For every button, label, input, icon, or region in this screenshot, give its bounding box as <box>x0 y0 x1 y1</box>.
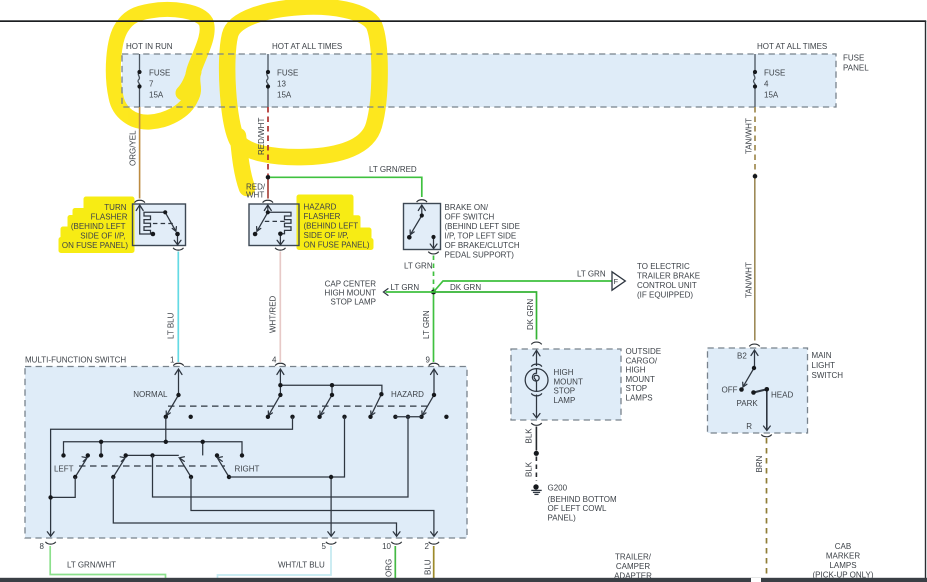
highlighter circle around HOT AT ALL TIMES <box>227 7 379 188</box>
wire BLK solid <box>535 427 537 451</box>
center contact segment <box>126 454 179 456</box>
svg-text:B2: B2 <box>737 352 747 361</box>
svg-text:4: 4 <box>764 80 769 89</box>
svg-text:HOT AT ALL TIMES: HOT AT ALL TIMES <box>272 42 342 51</box>
label OFF <box>722 386 738 395</box>
svg-text:MOUNT: MOUNT <box>554 377 583 386</box>
label LT GRN/RED <box>369 165 417 174</box>
wire ORG/YEL from fuse 7 to turn flasher <box>139 107 141 199</box>
svg-text:TRAILER BRAKE: TRAILER BRAKE <box>637 272 700 281</box>
svg-text:15A: 15A <box>149 91 164 100</box>
label HAZARD <box>391 390 424 399</box>
connector pin 8 <box>40 542 56 551</box>
svg-text:MULTI-FUNCTION SWITCH: MULTI-FUNCTION SWITCH <box>25 356 126 365</box>
label ORG/YEL <box>129 130 138 166</box>
pin 9 entry wire and arrow <box>431 369 438 395</box>
label TURN FLASHER (BEHIND LEFT SIDE OF I/P, ON FUSE PANEL) <box>62 203 128 250</box>
wire right pole to pin 5 <box>229 417 345 537</box>
switch arm from pin 9 <box>422 395 434 416</box>
wire BRN dashed <box>766 438 768 577</box>
svg-text:TAN/WHT: TAN/WHT <box>745 118 754 154</box>
turn flasher box fill <box>133 204 186 246</box>
svg-text:SIDE OF I/P,: SIDE OF I/P, <box>80 232 125 241</box>
connector pin 10 <box>382 542 402 551</box>
svg-text:OF LEFT COWL: OF LEFT COWL <box>548 504 608 513</box>
svg-text:OUTSIDE: OUTSIDE <box>626 347 662 356</box>
svg-text:5: 5 <box>322 542 327 551</box>
fuse F13 15A <box>266 54 268 107</box>
label CAB MARKER LAMPS (PICK-UP ONLY) <box>812 542 873 580</box>
dashed linkage line upper <box>168 405 430 407</box>
label BLK upper <box>525 428 534 444</box>
svg-text:CAB: CAB <box>835 542 851 551</box>
hazard flasher U2 box <box>249 204 299 246</box>
svg-text:2: 2 <box>425 542 430 551</box>
label HAZARD FLASHER (BEHIND LEFT SIDE OF I/P, ON FUSE PANEL) <box>304 203 370 250</box>
svg-text:FLASHER: FLASHER <box>91 213 128 222</box>
bottom toolbar bar <box>0 578 927 582</box>
turn flasher U1 box <box>133 204 186 246</box>
node green junction <box>431 290 436 295</box>
switch arm from pin 1 <box>166 395 178 416</box>
svg-text:ORG: ORG <box>385 559 394 577</box>
label LT GRN (to connector F) <box>577 270 606 279</box>
wire arm2 pole to pin 10 <box>113 477 400 536</box>
wire RED/WHT dashed from fuse 13 <box>267 107 269 175</box>
brake switch internals <box>410 205 437 249</box>
svg-text:PANEL): PANEL) <box>548 513 577 522</box>
wire LT GRN/WHT from pin 8 <box>50 546 165 578</box>
connector pin 9 <box>426 356 440 366</box>
svg-text:WHT/RED: WHT/RED <box>269 295 278 333</box>
wire WHT/RED hazard flasher to pin 4 <box>279 252 281 363</box>
connector above high mount lamp box <box>531 342 541 344</box>
connector below main light switch <box>761 435 771 437</box>
label MULTI-FUNCTION SWITCH <box>25 356 126 365</box>
svg-text:OFF: OFF <box>722 386 738 395</box>
main light switch internals <box>743 350 771 431</box>
connector pin 1 <box>170 356 184 366</box>
svg-text:CAP CENTER: CAP CENTER <box>325 280 377 289</box>
label HOT AT ALL TIMES (left) <box>272 42 342 51</box>
label G200 (BEHIND BOTTOM OF LEFT COWL PANEL) <box>548 484 618 523</box>
svg-text:HIGH MOUNT: HIGH MOUNT <box>324 289 376 298</box>
connector below turn flasher <box>173 248 183 250</box>
main light switch box fill <box>708 348 808 433</box>
label BRN <box>755 455 764 472</box>
svg-text:HIGH: HIGH <box>554 368 574 377</box>
wire BLU from pin 2 <box>433 546 435 578</box>
svg-text:TRAILER/: TRAILER/ <box>615 553 652 562</box>
svg-text:PARK: PARK <box>737 399 759 408</box>
svg-text:(IF EQUIPPED): (IF EQUIPPED) <box>637 291 693 300</box>
label LT GRN (above junction) <box>404 262 433 271</box>
fuse panel box fill <box>122 54 836 107</box>
wire ORG from pin 10 <box>394 546 396 578</box>
svg-text:NORMAL: NORMAL <box>133 390 168 399</box>
svg-text:(BEHIND LEFT SIDE: (BEHIND LEFT SIDE <box>445 222 520 231</box>
label RED/ WHT <box>246 183 266 200</box>
label BLK lower <box>525 461 534 477</box>
node pin 8 bus junction <box>48 495 52 499</box>
hazard contact link <box>395 416 421 418</box>
svg-text:LT GRN: LT GRN <box>577 270 606 279</box>
svg-text:DK GRN: DK GRN <box>450 283 481 292</box>
svg-text:1: 1 <box>170 356 175 365</box>
contact nodes upper row <box>164 383 449 419</box>
svg-text:LT GRN/WHT: LT GRN/WHT <box>67 561 116 570</box>
wire DK GRN junction to high mount lamp <box>434 292 537 340</box>
wire LT GRN junction down to pin 9 <box>433 295 435 363</box>
svg-text:STOP LAMP: STOP LAMP <box>331 298 377 307</box>
svg-text:HOT IN RUN: HOT IN RUN <box>126 42 173 51</box>
svg-text:(BEHIND LEFT: (BEHIND LEFT <box>71 222 126 231</box>
right switch arm 4 <box>217 457 229 477</box>
svg-text:MAIN: MAIN <box>812 351 832 360</box>
label TO ELECTRIC TRAILER BRAKE CONTROL UNIT (IF EQUIPPED) <box>637 262 700 300</box>
brake switch box fill <box>404 204 441 250</box>
svg-text:TO ELECTRIC: TO ELECTRIC <box>637 262 690 271</box>
svg-text:FUSE: FUSE <box>149 69 170 78</box>
label HOT IN RUN <box>126 42 173 51</box>
svg-text:BLU: BLU <box>424 559 433 575</box>
wire LT GRN/RED from junction to brake switch <box>270 177 422 197</box>
turn flasher internals <box>136 205 181 245</box>
svg-text:PEDAL SUPPORT): PEDAL SUPPORT) <box>445 251 515 260</box>
left switch arm 1 <box>75 457 87 477</box>
wire left bus B <box>64 442 243 456</box>
label LT BLU <box>167 312 176 339</box>
svg-text:OFF SWITCH: OFF SWITCH <box>445 213 495 222</box>
label NORMAL <box>133 390 168 399</box>
nodes on bus B <box>99 440 205 444</box>
svg-text:10: 10 <box>382 542 391 551</box>
wire S1 output to left bus <box>165 417 167 442</box>
svg-text:I/P, TOP LEFT SIDE: I/P, TOP LEFT SIDE <box>445 232 517 241</box>
label LT GRN (vertical above pin 9) <box>422 310 431 339</box>
page frame right border <box>925 21 926 578</box>
label LEFT <box>54 465 74 474</box>
svg-text:STOP: STOP <box>554 387 576 396</box>
svg-text:PANEL: PANEL <box>843 64 869 73</box>
hazard flasher box fill <box>249 204 299 246</box>
label CAP CENTER HIGH MOUNT STOP LAMP <box>324 280 376 307</box>
svg-text:LT GRN: LT GRN <box>422 310 431 339</box>
wire arm3 pole to pin 2 <box>191 477 437 536</box>
label LT GRN (left of junction) <box>391 283 420 292</box>
wire RED/WHT solid to hazard flasher <box>267 180 269 199</box>
switch arm middle <box>320 395 332 416</box>
high mount stop lamp box (dashed) <box>511 349 621 420</box>
svg-text:FUSE: FUSE <box>764 69 785 78</box>
wire left feed bus A <box>47 417 292 537</box>
connector below hazard flasher <box>275 248 285 250</box>
svg-text:ON FUSE PANEL): ON FUSE PANEL) <box>62 241 128 250</box>
svg-text:BRN: BRN <box>755 455 764 472</box>
label OUTSIDE CARGO/ HIGH MOUNT STOP LAMPS <box>626 347 662 403</box>
label BLU <box>424 559 433 575</box>
right switch arm 3 <box>179 457 191 477</box>
svg-text:HAZARD: HAZARD <box>391 390 424 399</box>
node pin 5 junction <box>329 475 333 479</box>
wire center contact to hazard bus <box>153 417 409 497</box>
svg-text:G200: G200 <box>548 484 568 493</box>
svg-text:15A: 15A <box>764 91 779 100</box>
svg-text:FUSE: FUSE <box>277 69 298 78</box>
svg-text:FUSE: FUSE <box>843 54 864 63</box>
svg-text:LT BLU: LT BLU <box>167 312 176 339</box>
svg-text:OF BRAKE/CLUTCH: OF BRAKE/CLUTCH <box>445 241 520 250</box>
wire left pole to pin 8 bus <box>51 477 76 497</box>
svg-text:BLK: BLK <box>525 461 534 477</box>
page frame top line <box>0 20 926 22</box>
svg-text:HAZARD: HAZARD <box>304 203 337 212</box>
svg-text:4: 4 <box>272 356 277 365</box>
high mount stop lamp box fill <box>511 349 621 420</box>
svg-text:7: 7 <box>149 80 154 89</box>
svg-text:RED/WHT: RED/WHT <box>257 118 266 155</box>
svg-text:WHT: WHT <box>246 191 264 200</box>
svg-text:(BEHIND BOTTOM: (BEHIND BOTTOM <box>548 495 618 504</box>
node junction red/wht <box>266 175 271 180</box>
connector above hazard flasher <box>263 200 273 202</box>
svg-text:SIDE OF I/P,: SIDE OF I/P, <box>304 231 349 240</box>
pole nodes <box>73 475 231 479</box>
svg-text:LAMPS: LAMPS <box>626 394 653 403</box>
pin 1 entry wire and arrow <box>175 369 182 395</box>
lamp E1 high mount stop lamp <box>525 350 548 418</box>
wire TAN/WHT dashed from fuse 4 <box>754 107 756 174</box>
dashed linkage line lower <box>79 465 225 467</box>
svg-text:LAMP: LAMP <box>554 396 576 405</box>
svg-text:13: 13 <box>277 80 286 89</box>
connector below brake switch <box>428 252 438 254</box>
label WHT/RED <box>269 295 278 333</box>
svg-text:CAMPER: CAMPER <box>616 562 650 571</box>
fuse panel dashed border <box>122 54 836 107</box>
switch arm from pin 4 (left) <box>268 395 280 416</box>
svg-text:R: R <box>746 422 752 431</box>
multi-function switch box fill <box>25 367 467 539</box>
svg-text:CONTROL UNIT: CONTROL UNIT <box>637 281 697 290</box>
connector above brake switch <box>417 200 427 202</box>
svg-text:SWITCH: SWITCH <box>812 371 844 380</box>
label BRAKE ON/OFF SWITCH ... <box>445 203 520 260</box>
label DK GRN (horizontal) <box>450 283 481 292</box>
connector pin 2 <box>425 542 440 551</box>
svg-text:ON FUSE PANEL): ON FUSE PANEL) <box>304 241 370 250</box>
brake on/off switch S1 box <box>404 204 441 250</box>
wire BLK dashed to ground <box>535 457 537 482</box>
label TAN/WHT upper <box>745 118 754 154</box>
label ORG <box>385 559 394 577</box>
svg-text:CARGO/: CARGO/ <box>626 356 658 365</box>
wire LT GRN to cap center stop lamp (left arrow) <box>383 289 433 296</box>
svg-text:LIGHT: LIGHT <box>812 361 836 370</box>
wire LT BLU turn flasher to pin 1 <box>177 252 179 363</box>
wire TAN/WHT solid to main light switch <box>754 179 756 341</box>
ground G200 <box>531 484 541 494</box>
label FUSE PANEL <box>843 54 869 73</box>
svg-text:FLASHER: FLASHER <box>304 212 341 221</box>
svg-text:F: F <box>614 277 619 286</box>
svg-text:DK GRN: DK GRN <box>526 299 535 330</box>
connector above turn flasher <box>135 200 145 202</box>
label B2 <box>737 352 747 361</box>
connector pin 4 <box>272 356 286 366</box>
label HEAD <box>771 391 793 400</box>
main light switch box (dashed) <box>708 348 808 433</box>
contact nodes lower row <box>61 453 244 457</box>
left switch arm 2 <box>113 457 125 477</box>
hazard flasher internals <box>257 205 291 245</box>
wire LT GRN junction to trailer brake connector F <box>434 281 613 292</box>
wire WHT/LT BLU from pin 5 <box>218 546 332 578</box>
svg-text:MARKER: MARKER <box>826 552 860 561</box>
svg-text:LAMPS: LAMPS <box>829 561 856 570</box>
label WHT/LT BLU <box>278 561 325 570</box>
node blk junction <box>534 451 539 456</box>
svg-text:TURN: TURN <box>104 203 126 212</box>
label MAIN LIGHT SWITCH <box>812 351 844 380</box>
node tan/wht <box>753 174 758 179</box>
pin 4 distribution bus <box>280 385 382 395</box>
label R <box>746 422 752 431</box>
svg-text:(BEHIND LEFT: (BEHIND LEFT <box>304 222 359 231</box>
label HIGH MOUNT STOP LAMP <box>554 368 583 405</box>
label RED/WHT <box>257 118 266 155</box>
svg-text:TAN/WHT: TAN/WHT <box>745 262 754 298</box>
fuse F4 15A <box>753 54 755 107</box>
svg-text:15A: 15A <box>277 91 292 100</box>
svg-text:HIGH: HIGH <box>626 366 646 375</box>
svg-text:ORG/YEL: ORG/YEL <box>129 130 138 166</box>
svg-text:LT GRN: LT GRN <box>391 283 420 292</box>
svg-text:LT GRN/RED: LT GRN/RED <box>369 165 417 174</box>
connector F triangle <box>612 272 625 290</box>
svg-text:LT GRN: LT GRN <box>404 262 433 271</box>
svg-text:8: 8 <box>40 542 45 551</box>
label LT GRN/WHT <box>67 561 116 570</box>
highlighter block over TURN FLASHER text <box>61 199 132 251</box>
svg-text:LEFT: LEFT <box>54 465 74 474</box>
fuse F7 15A <box>138 54 140 107</box>
label DK GRN (vertical) <box>526 299 535 330</box>
svg-text:MOUNT: MOUNT <box>626 375 655 384</box>
label PARK <box>737 399 759 408</box>
switch arm hazard <box>371 394 382 416</box>
label TAN/WHT lower <box>745 262 754 298</box>
multi-function switch box (dashed) <box>25 367 467 539</box>
label TRAILER/ CAMPER ADAPTER <box>614 553 652 581</box>
label HOT AT ALL TIMES (right) <box>757 42 827 51</box>
connector pin 5 <box>322 542 337 551</box>
connector below high mount lamp box <box>531 423 541 425</box>
svg-text:9: 9 <box>426 356 431 365</box>
label RIGHT <box>235 465 260 474</box>
svg-text:RIGHT: RIGHT <box>235 465 260 474</box>
connector above main light switch <box>749 344 759 346</box>
svg-text:HOT AT ALL TIMES: HOT AT ALL TIMES <box>757 42 827 51</box>
svg-text:STOP: STOP <box>626 384 648 393</box>
highlighter block over HAZARD FLASHER text <box>299 197 371 248</box>
svg-text:BRAKE ON/: BRAKE ON/ <box>445 203 489 212</box>
svg-text:BLK: BLK <box>525 428 534 444</box>
svg-text:WHT/LT BLU: WHT/LT BLU <box>278 561 325 570</box>
highlighter circle around HOT IN RUN <box>113 9 207 122</box>
pin 4 entry wire and arrow <box>277 369 284 385</box>
svg-text:HEAD: HEAD <box>771 391 793 400</box>
wire LT GRN dashed brake switch to junction <box>433 256 435 290</box>
